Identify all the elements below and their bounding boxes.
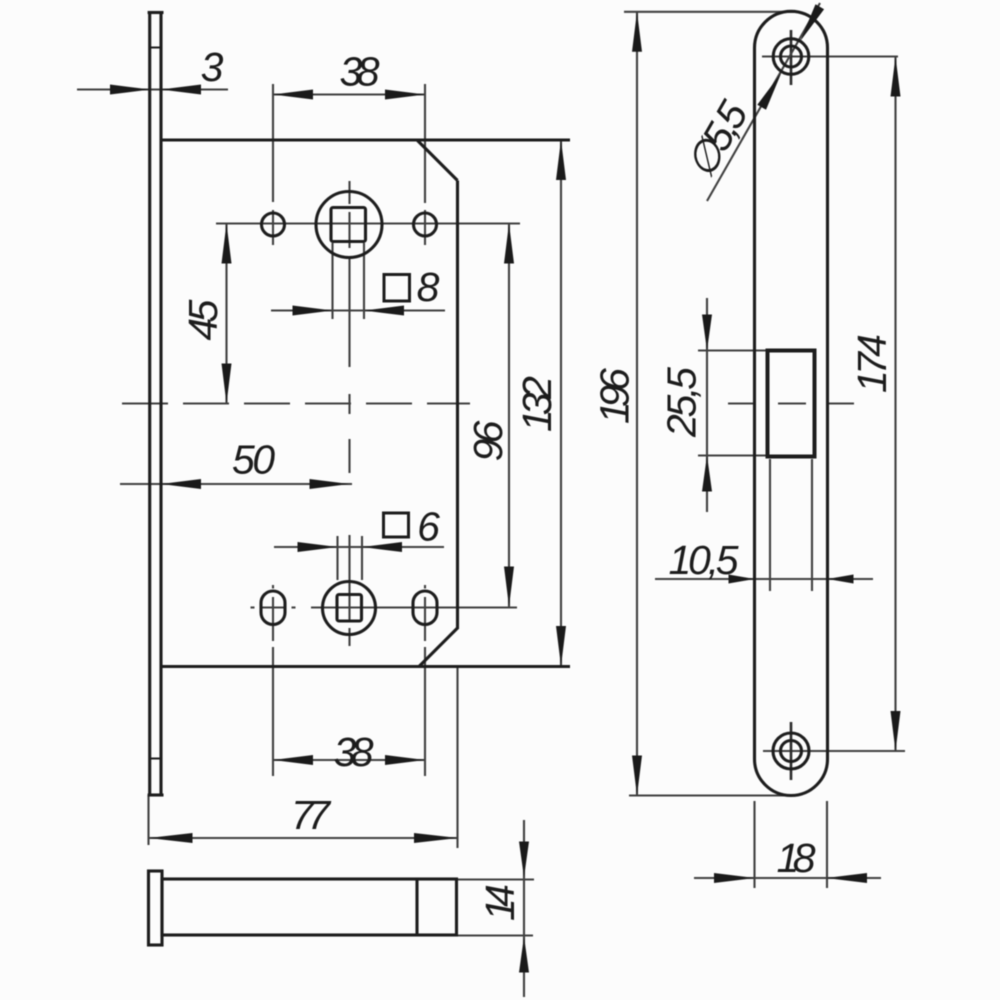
svg-text:196: 196	[592, 368, 638, 424]
svg-text:25,5: 25,5	[659, 367, 705, 438]
svg-text:50: 50	[232, 437, 275, 483]
svg-text:132: 132	[514, 376, 560, 432]
svg-text:18: 18	[777, 835, 816, 881]
svg-text:14: 14	[477, 884, 523, 921]
svg-text:174: 174	[849, 334, 895, 393]
svg-text:38: 38	[340, 49, 380, 95]
svg-text:10,5: 10,5	[669, 537, 739, 583]
svg-text:∅5,5: ∅5,5	[677, 93, 757, 185]
svg-text:8: 8	[417, 264, 440, 310]
svg-text:6: 6	[417, 504, 440, 550]
svg-text:38: 38	[334, 729, 374, 775]
svg-text:77: 77	[291, 792, 332, 838]
svg-text:45: 45	[180, 299, 226, 340]
svg-text:3: 3	[201, 44, 224, 90]
svg-text:96: 96	[465, 420, 511, 461]
